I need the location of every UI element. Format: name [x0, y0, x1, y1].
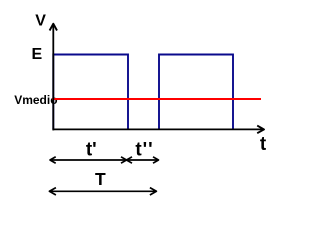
Vmedio red line — [52, 98, 261, 100]
T measure arrow — [49, 190, 156, 192]
svg-text:t': t' — [86, 139, 97, 160]
x-axis arrowhead — [257, 126, 264, 134]
x-axis t — [52, 128, 262, 130]
pulse 1 (square wave) — [53, 55, 128, 130]
svg-text:Vmedio: Vmedio — [14, 93, 57, 107]
svg-text:t'': t'' — [135, 139, 153, 160]
svg-text:t: t — [260, 134, 267, 155]
t' measure arrow — [50, 159, 127, 161]
y-axis arrowhead — [50, 24, 57, 31]
svg-text:V: V — [35, 13, 46, 30]
pulse 2 (square wave) — [159, 55, 233, 130]
y-axis V — [52, 26, 54, 131]
svg-text:T: T — [95, 169, 106, 189]
svg-text:E: E — [31, 46, 42, 63]
t'' measure arrow — [127, 159, 159, 161]
